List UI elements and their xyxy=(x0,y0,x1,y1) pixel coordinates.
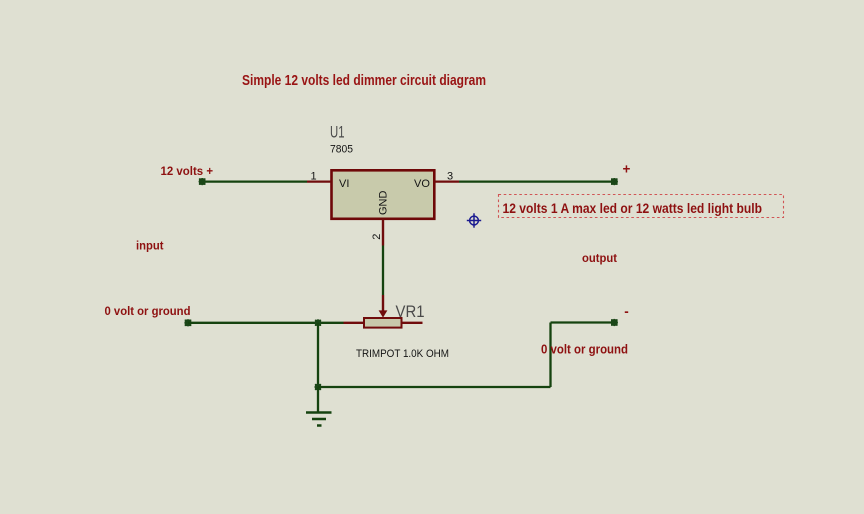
label U1 xyxy=(330,123,345,141)
title text xyxy=(242,73,486,89)
terminal node ground input xyxy=(184,319,191,326)
wire ground rail bottom xyxy=(318,386,551,388)
trimpot VR1 right pin xyxy=(402,322,423,324)
svg-text:input: input xyxy=(136,238,164,252)
svg-text:7805: 7805 xyxy=(330,144,353,156)
pin number 2 (rotated) xyxy=(371,234,383,240)
label VR1 xyxy=(396,303,425,321)
label input xyxy=(136,238,164,252)
trimpot VR1 left pin xyxy=(344,322,365,324)
label - xyxy=(624,304,629,319)
label 0 volt or ground (right) xyxy=(541,342,628,356)
wire to output ground terminal xyxy=(551,321,616,323)
svg-text:Simple 12 volts led dimmer cir: Simple 12 volts led dimmer circuit diagr… xyxy=(242,73,486,89)
wire input to pin1 xyxy=(202,180,307,182)
pin label VO xyxy=(414,178,430,190)
ground xyxy=(306,413,332,426)
pin label VI xyxy=(339,178,349,190)
svg-text:-: - xyxy=(624,304,629,319)
svg-text:2: 2 xyxy=(371,234,383,240)
wire stub to ground symbol xyxy=(317,387,319,412)
svg-text:1: 1 xyxy=(311,170,317,182)
wire down from junction xyxy=(317,323,319,387)
pin label GND (rotated) xyxy=(378,191,390,216)
svg-text:U1: U1 xyxy=(330,123,345,141)
svg-text:0 volt or ground: 0 volt or ground xyxy=(105,304,191,318)
label output xyxy=(582,251,617,265)
junction node at trimpot rail xyxy=(314,319,321,326)
wire pin2 to trimpot wiper xyxy=(382,246,384,296)
label 12 volts + xyxy=(161,164,214,178)
terminal node + output xyxy=(611,178,618,185)
op-amp-style regulator body U1 (7805) xyxy=(332,170,435,219)
pin 1 stub of U1 xyxy=(307,180,331,182)
terminal node - output xyxy=(611,319,618,326)
note text xyxy=(503,200,763,216)
pin 2 stub of U1 xyxy=(382,219,384,246)
svg-text:TRIMPOT 1.0K OHM: TRIMPOT 1.0K OHM xyxy=(356,348,449,360)
label + xyxy=(623,161,631,176)
node box: 12 volts 1 A max led note (dashed) xyxy=(499,195,784,218)
svg-text:12 volts 1 A max led or 12 wat: 12 volts 1 A max led or 12 watts led lig… xyxy=(503,200,763,216)
svg-text:12 volts +: 12 volts + xyxy=(161,164,214,178)
pin number 3 xyxy=(447,170,453,182)
svg-text:VI: VI xyxy=(339,178,349,190)
wire pin3 to output terminal xyxy=(459,180,615,182)
wire ground rail left xyxy=(188,322,344,324)
pin 3 stub of U1 xyxy=(435,180,460,182)
svg-text:0 volt or ground: 0 volt or ground xyxy=(541,342,628,356)
junction node at ground tee xyxy=(314,383,321,390)
wire up to output ground terminal xyxy=(549,323,551,388)
value label 7805 xyxy=(330,144,353,156)
trimpot wiper arrow xyxy=(379,295,388,318)
label 0 volt or ground (left) xyxy=(105,304,191,318)
terminal node 12V input xyxy=(199,178,206,185)
svg-text:3: 3 xyxy=(447,170,453,182)
svg-text:VR1: VR1 xyxy=(396,303,425,321)
svg-text:+: + xyxy=(623,161,631,176)
svg-text:VO: VO xyxy=(414,178,430,190)
trimpot VR1 body xyxy=(364,318,402,328)
origin marker (blue crosshair) xyxy=(467,213,481,227)
pin number 1 xyxy=(311,170,317,182)
value label TRIMPOT 1.0K OHM xyxy=(356,348,449,360)
svg-text:output: output xyxy=(582,251,617,265)
svg-text:GND: GND xyxy=(378,191,390,216)
